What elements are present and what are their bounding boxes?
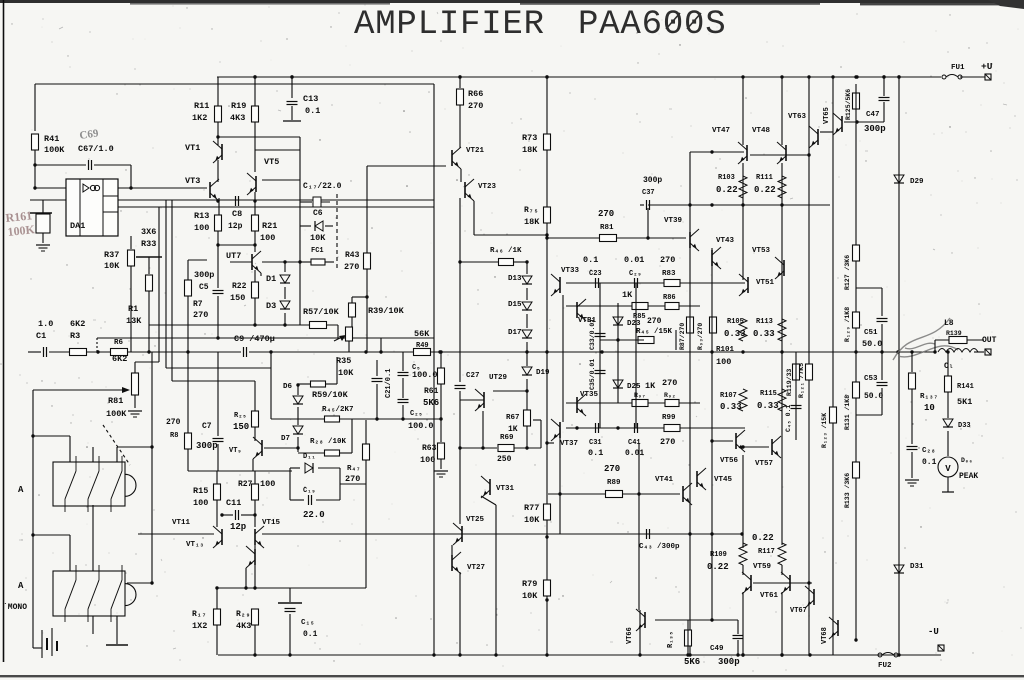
pencil scribble [893,318,958,360]
wire R7 down [187,296,189,352]
resistor R127 [853,245,860,261]
wire R47 down [365,460,367,484]
resistor R61 [438,368,445,384]
node x935 y352 [933,350,936,353]
wire trimmer stub [30,199,66,201]
transistor VT9 [253,437,262,459]
label 50.0 C53 [864,392,883,401]
wire x743 col low [742,455,744,548]
label R19 [231,101,246,111]
label 300p C7 [196,441,218,451]
wire y500 seg [290,499,304,501]
node x882 y352 [880,350,883,353]
svg-text:R₂₅: R₂₅ [234,412,247,420]
svg-text:R131 /1K8: R131 /1K8 [844,395,851,430]
wire x809 col [808,77,810,655]
resistor R103 [739,176,747,198]
node x899 y655 [897,653,900,656]
node x809 y583 [807,581,810,584]
capacitor C45 [791,406,802,409]
label C51 [864,329,878,337]
wire R35 down to bus [348,341,350,352]
wire y534 long [262,533,742,535]
svg-text:VT₁₃: VT₁₃ [186,541,204,549]
ground bar relay [106,644,128,646]
label 270 R8 [166,418,181,427]
label C5 [199,283,209,292]
wire y468 seg [290,467,300,469]
wire pot top bar [135,361,159,363]
resistor R66 [457,89,464,105]
svg-text:R13: R13 [194,211,209,221]
op-amp DA1 [66,179,118,236]
wire y471 bar [188,470,292,472]
node x441 y352 [439,350,442,353]
capacitor C23 [596,278,599,288]
svg-text:D₁₁: D₁₁ [303,453,316,461]
svg-text:VT23: VT23 [478,183,497,191]
diode D7 [293,426,303,434]
wire FC1 right [325,261,334,263]
label A2 [18,581,24,591]
label R61 [424,387,439,396]
label 0.33 c [720,402,742,412]
label R46 /1K [490,247,522,255]
label R161 handwritten [5,208,33,225]
resistor R111 [778,176,786,198]
wire R109 to VT59 [742,565,744,575]
svg-text:V: V [945,464,951,474]
label R81 [600,224,614,232]
transistor VT13 [246,546,255,568]
diode D13 [522,276,532,284]
label 100 R15 [193,498,208,508]
wire upper bus y84 [35,83,434,85]
wire y188 into DA1 [35,187,66,189]
junction top rail x743 [741,75,744,78]
wire x782 col [781,163,783,545]
svg-text:R105: R105 [727,318,744,326]
label C35/0.01 rot [589,359,596,390]
label VT5 [264,157,279,167]
wire x640 col [639,610,641,655]
label 10K mid [310,233,326,243]
label FU2 [878,662,892,670]
svg-text:AMPLIFIER: AMPLIFIER [354,6,545,44]
node x898 y352 [896,350,899,353]
svg-text:C₁₉: C₁₉ [303,487,316,495]
svg-text:R₁₂₉ /1K8: R₁₂₉ /1K8 [844,307,851,342]
diode D23 [613,317,623,325]
wire x255 R27 down [254,500,256,527]
svg-text:0.1: 0.1 [303,630,318,639]
svg-text:R87/270: R87/270 [679,323,686,350]
svg-text:D33: D33 [958,422,971,430]
resistor R47 [363,444,370,460]
wire R39b to R35 [351,317,353,327]
svg-text:Cₗ: Cₗ [944,362,954,371]
label 270 R99 [660,437,675,447]
node x255 y515 [253,513,256,516]
svg-text:R77: R77 [524,503,539,513]
wire R13 down [217,231,219,288]
wire R17 up [216,588,218,609]
svg-text:6K2: 6K2 [70,319,85,329]
node x218 y245 [216,243,219,246]
transistor VT39 [690,229,699,251]
svg-text:A: A [18,581,24,591]
label D31 [910,563,924,571]
diode D29 [894,175,904,183]
svg-text:R₁₂₃ /15K: R₁₂₃ /15K [821,413,828,448]
capacitor C5 [213,291,224,294]
svg-text:0.33: 0.33 [720,402,742,412]
svg-text:R43: R43 [345,251,360,260]
resistor R29 [252,609,259,625]
border bottom band [0,675,1024,677]
wire x743 col top [742,77,744,145]
wire D3 to bus [284,313,286,325]
svg-text:R89: R89 [607,479,621,487]
node x285 y325 [283,323,286,326]
svg-text:3X6: 3X6 [141,227,156,237]
svg-text:250: 250 [497,455,512,464]
node x743 y655 [741,653,744,656]
wire x217 R15 down [216,500,218,527]
wire C19 right [316,499,340,501]
label R67 [506,414,520,422]
transistor VT63 [809,126,818,148]
label C6 [313,209,323,218]
wire dashed coupler [336,194,338,270]
svg-text:R37: R37 [104,250,119,260]
svg-text:D29: D29 [910,178,924,186]
svg-text:R33: R33 [141,239,156,249]
node x547 y443 [545,441,548,444]
label 1K2 [192,113,207,123]
label 18K R75 [524,217,540,227]
wire C9 right [249,351,366,353]
label R47 [347,465,361,473]
resistor R13 [215,215,222,231]
wire x292 down to C13 [291,77,293,98]
label 22.0 [303,510,325,520]
wire x70 top [69,436,71,462]
node x222 y515 [220,513,223,516]
svg-text:D₀₆: D₀₆ [961,457,973,464]
resistor R81 [600,235,617,242]
label C53 [864,375,878,383]
label OUT [982,336,997,345]
label R139 [946,330,962,337]
label 1K lower [645,381,656,391]
label R69 [500,434,514,442]
diode D1 [280,275,290,283]
label C43 /300p [639,543,680,551]
svg-text:100: 100 [193,498,208,508]
wire VT29 emit drop [482,411,484,448]
wire main bus mid [366,351,414,353]
wire R117 to VT61 [781,565,783,575]
node x640 y655 [638,653,641,656]
svg-text:C1: C1 [36,331,46,341]
capacitor C17 [313,197,330,207]
svg-text:R₁₃₇: R₁₃₇ [920,393,938,401]
label 5K1 [957,397,972,407]
wire x856 col [855,84,857,640]
svg-text:VT₉: VT₉ [229,447,242,455]
wire VT1-VT3 link [217,160,219,182]
junction top rail x255 [253,75,256,78]
meter bottom tick [942,491,954,493]
svg-text:0.1: 0.1 [588,448,603,458]
node x690 y534 [688,532,691,535]
label 100K pot [106,409,127,419]
svg-text:D1: D1 [266,274,276,284]
wire base rail y155b [750,154,809,156]
wire C5 down [217,296,219,338]
label R97 [634,392,646,399]
transistor VT33 [551,274,560,296]
svg-text:0.22: 0.22 [752,533,774,543]
svg-text:C13: C13 [303,94,318,104]
svg-text:150: 150 [233,422,249,432]
transistor VTB1 [577,299,586,321]
node x483 y448 [481,446,484,449]
capacitor C53 [877,383,888,386]
wire x70 mid [69,535,71,571]
wire x833 col [832,77,834,655]
label VT51 [756,279,775,287]
wire VT23 emit down [473,201,475,235]
wire x93 mid [92,505,94,571]
wire C11 right [241,514,255,516]
label R33 [141,239,156,249]
wire y583 base link [753,582,812,584]
resistor R17 [214,609,221,625]
label VT39 [664,217,683,225]
label 100.0 a [412,370,438,380]
svg-text:4K3: 4K3 [236,621,251,631]
svg-text:1K: 1K [645,381,656,391]
resistor R85 [632,303,648,310]
node x560 y494 [558,492,561,495]
svg-text:-U: -U [928,627,939,637]
wire x541 up [540,420,542,448]
svg-text:C8: C8 [232,209,242,219]
node x150 y352 [147,350,150,353]
wire y340 left [600,339,644,341]
label 10K R35 [338,368,354,378]
transistor VT65 [833,113,842,135]
label +U [981,61,993,72]
svg-text:R107: R107 [720,392,737,400]
svg-text:VT43: VT43 [716,237,735,245]
resistor R19 [252,106,259,122]
label 12p C11 [230,522,246,532]
label D7 [281,435,290,443]
resistor R33 [146,275,153,291]
transistor VT21 [452,147,461,169]
label R85 [633,313,646,321]
label C28 [922,447,936,455]
wire R61-R63 link [440,419,442,442]
svg-text:C₂₅: C₂₅ [410,410,423,418]
label 300p C5 [194,270,214,280]
node x618 y340 [616,338,619,341]
svg-text:270: 270 [647,317,662,326]
node x271 y352 [269,350,272,353]
label 270 R7 [193,310,208,320]
label D17 [508,329,522,337]
svg-text:10: 10 [924,403,935,413]
wire y419 right [340,418,441,420]
label R7 [193,300,203,309]
label 1X2 [192,621,207,631]
wire D1-D3 [284,287,286,299]
wire x618 col [617,303,619,403]
node x188 y352 [186,350,189,353]
label R121/7K5 rot [798,363,805,398]
resistor R117 [778,543,786,565]
diode D25 [613,380,623,388]
svg-text:R109: R109 [710,551,727,559]
svg-text:VT25: VT25 [466,516,485,524]
wire C67 to corner [94,164,131,166]
label C31 [589,439,602,447]
node x782 y655 [780,653,783,656]
node x441 y419 [439,417,442,420]
node x218 y338 [216,336,219,339]
resistor R57 [310,322,327,329]
svg-text:0.22: 0.22 [707,562,729,572]
label R117 [758,548,775,556]
node x602 y352 [600,350,603,353]
svg-text:270: 270 [345,474,360,484]
label C19 [303,487,316,495]
node input a [96,350,99,353]
svg-text:VT45: VT45 [714,476,733,484]
wire main bus right of R49 [431,351,935,353]
wire VT5 base y180 [262,179,300,181]
wire x460 R66 down [459,105,461,148]
wire x172 drop [171,200,173,381]
capacitor C13 bottom bar [283,120,301,122]
resistor R109 [739,543,747,565]
label 10K R79 [522,591,538,601]
svg-text:R57/10K: R57/10K [303,307,340,317]
svg-text:VT1: VT1 [185,143,200,153]
fuse FU2 [878,653,898,658]
node x577 y428 [575,426,578,429]
svg-text:R81: R81 [108,396,123,406]
svg-text:0.22: 0.22 [754,185,776,195]
label 4K3 [236,621,251,631]
transistor VT1 [213,141,222,163]
svg-text:270: 270 [344,262,359,272]
label R111 [756,174,773,182]
capacitor C8 [236,196,239,206]
svg-text:R₄₅ /15K: R₄₅ /15K [636,328,673,336]
label 5K6 bottom [684,657,700,667]
transistor VT27 [452,552,461,574]
svg-text:VT68: VT68 [821,627,829,644]
resistor R45b [638,337,654,344]
svg-text:VT15: VT15 [262,519,281,527]
svg-text:VT63: VT63 [788,113,807,121]
label R89 [607,479,621,487]
transistor VT53 [775,257,784,279]
label R113 [756,318,773,326]
label 270 R89 [604,464,620,474]
resistor R105 [739,319,747,341]
svg-text:10K: 10K [522,591,538,601]
resistor R21 [252,215,259,231]
wire R28 right [340,452,352,454]
junction top rail x547 [545,75,548,78]
label VT41 [655,476,674,484]
label VT11 [172,519,191,527]
label 270 R66 [468,101,483,111]
wire VT31 emit slant [481,496,496,505]
resistor R131 [853,382,860,398]
node x290 y655 [288,653,291,656]
label 270 R43 [344,262,359,272]
label R41 [44,134,59,144]
node x782 y655 [780,653,783,656]
wire x527 below bus [526,352,528,366]
node x255 y655 [253,653,256,656]
resistor R8 [185,433,192,449]
wire x255 below VT13 [254,565,256,588]
node x547 y235 [545,233,548,236]
svg-text:50.0: 50.0 [862,339,882,349]
svg-text:1K: 1K [508,425,518,434]
svg-text:270: 270 [660,437,675,447]
wire x712 col [711,248,713,620]
svg-text:R61: R61 [424,387,439,396]
wire x255 bus-77 down [254,77,256,106]
label D15 [508,301,522,309]
wire x460 below VT23 [459,198,461,262]
wire x912 col [911,352,913,372]
wire pot top [134,362,136,373]
svg-text:270: 270 [166,418,181,427]
label R35 [336,356,351,366]
svg-text:150: 150 [230,293,245,303]
label C47 [866,111,880,119]
node x547 y655 [545,653,548,656]
label R49 [416,342,429,350]
node x440 y352 [438,350,441,353]
svg-text:PEAK: PEAK [959,472,978,481]
wire R137 down [911,389,913,444]
resistor R7 [185,280,192,296]
svg-text:R₄₅/2K7: R₄₅/2K7 [322,406,354,414]
label VT66 rot [626,627,634,644]
node x255 y245 [253,243,256,246]
svg-text:12p: 12p [230,522,246,532]
label 270 R47 [345,474,360,484]
label VT47 [712,127,730,135]
svg-text:UT7: UT7 [226,251,241,261]
resistor R125 [853,93,860,109]
label C1 [36,331,46,341]
label R119/33 rot [786,369,793,396]
svg-text:VT37: VT37 [560,440,578,448]
label C41 [628,439,641,447]
svg-text:VT48: VT48 [752,127,771,135]
